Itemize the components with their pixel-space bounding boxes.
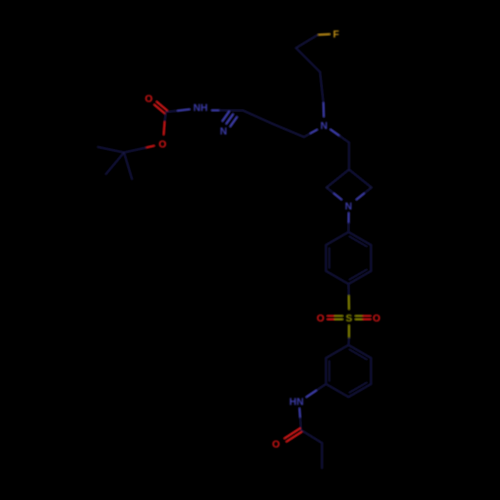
svg-text:N: N [320, 121, 327, 132]
svg-text:O: O [317, 314, 325, 325]
svg-text:O: O [159, 140, 167, 151]
svg-text:S: S [346, 314, 353, 325]
svg-text:O: O [145, 94, 153, 105]
svg-text:F: F [333, 30, 339, 41]
svg-text:NH: NH [193, 103, 207, 114]
svg-text:O: O [272, 440, 280, 451]
svg-text:N: N [220, 127, 227, 138]
svg-text:N: N [345, 202, 352, 213]
svg-text:O: O [373, 314, 381, 325]
svg-text:HN: HN [289, 397, 303, 408]
